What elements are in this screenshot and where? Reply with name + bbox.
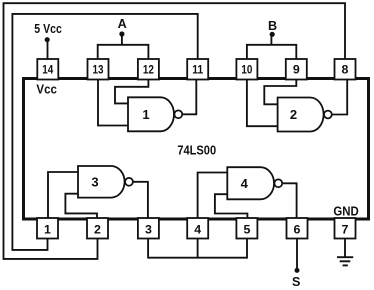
pin 13 <box>88 59 109 80</box>
NAND gate 2 <box>278 98 324 132</box>
wire: pin 9 to gate 2 top input <box>264 80 296 105</box>
svg-text:12: 12 <box>143 63 154 77</box>
bubble gate 4 output <box>274 179 282 187</box>
svg-text:3: 3 <box>91 175 98 190</box>
pin 6 <box>287 218 308 239</box>
pin 8 <box>335 59 356 80</box>
pin 7 <box>335 218 356 239</box>
svg-text:B: B <box>268 19 277 33</box>
wire: A to pins 13 and 12 bracket <box>98 36 149 59</box>
svg-text:A: A <box>118 17 127 31</box>
svg-text:7: 7 <box>342 223 349 237</box>
label S <box>292 275 300 289</box>
bubble gate 3 output <box>125 178 133 186</box>
pin 4 <box>187 218 208 239</box>
wire: gate 4 top input to pin 4 <box>198 173 228 219</box>
node A input dot <box>119 31 124 36</box>
wire: gate 3 bottom input to pin 2 <box>65 194 97 218</box>
pin 14 <box>37 59 58 80</box>
svg-text:8: 8 <box>342 63 349 77</box>
IC body U1 74LS00 <box>24 79 369 220</box>
svg-text:1: 1 <box>44 223 51 237</box>
wire: pins 3,4,5 bottom bus <box>148 239 247 258</box>
pin 12 <box>138 59 159 80</box>
wire: pin 6 to S output <box>296 239 298 269</box>
wire: pin 13 to gate 1 bottom input <box>98 80 128 126</box>
pin 2 <box>87 218 108 239</box>
svg-text:6: 6 <box>294 223 301 237</box>
wire: gate 1 output to pin 11 <box>182 80 196 115</box>
label Vcc (inside IC) <box>36 82 57 96</box>
pin 5 <box>236 218 257 239</box>
svg-text:10: 10 <box>241 63 252 77</box>
svg-text:Vcc: Vcc <box>36 82 57 96</box>
wire: gate 4 bottom input to pin 5 <box>215 194 248 218</box>
label B <box>268 19 277 33</box>
wire: gate 2 output to pin 8 <box>332 80 347 115</box>
svg-text:14: 14 <box>42 63 53 77</box>
label A <box>118 17 127 31</box>
svg-text:13: 13 <box>93 63 104 77</box>
bubble gate 1 output <box>174 110 182 118</box>
svg-text:3: 3 <box>145 223 152 237</box>
wire: gate 3 top input to pin 1 <box>48 172 78 218</box>
wire: pin 12 to gate 1 top input <box>115 80 148 104</box>
bubble gate 2 output <box>324 111 332 119</box>
svg-text:GND: GND <box>333 204 358 219</box>
wire: pin 7 to ground <box>344 239 346 258</box>
pin 9 <box>286 59 307 80</box>
svg-text:1: 1 <box>142 107 149 122</box>
svg-text:5 Vcc: 5 Vcc <box>34 22 62 36</box>
NAND gate 3 <box>78 166 125 198</box>
pin 10 <box>236 59 257 80</box>
pin 1 <box>37 218 58 239</box>
svg-text:9: 9 <box>293 63 300 77</box>
node B input dot <box>270 32 275 37</box>
pin 3 <box>138 218 159 239</box>
pin 11 <box>187 59 208 80</box>
svg-text:2: 2 <box>94 223 101 237</box>
svg-text:2: 2 <box>290 107 297 122</box>
svg-text:S: S <box>292 275 300 289</box>
label GND (inside IC) <box>333 204 358 219</box>
NAND gate 1 <box>128 97 174 131</box>
svg-text:4: 4 <box>194 223 201 237</box>
wire: gate 4 output to pin 6 <box>282 183 296 218</box>
NAND gate 4 <box>227 167 274 199</box>
svg-text:11: 11 <box>192 63 203 77</box>
label 5 Vcc <box>34 22 62 36</box>
wire: pin 10 to gate 2 bottom input <box>247 80 278 127</box>
wire: B to pins 10 and 9 bracket <box>247 36 296 59</box>
svg-text:5: 5 <box>243 223 250 237</box>
node: 5 Vcc terminal dot <box>45 37 50 42</box>
wire: 5 Vcc supply to pin 14 <box>47 40 49 59</box>
label 74LS00 <box>177 142 216 157</box>
ground <box>337 257 353 265</box>
svg-text:4: 4 <box>241 176 249 191</box>
node S output dot <box>295 268 300 273</box>
wire: pin 11 output loop to pin 1 (net Q) <box>12 14 197 250</box>
svg-text:74LS00: 74LS00 <box>177 142 216 157</box>
wire: gate 3 output to pin 3 <box>133 182 148 218</box>
